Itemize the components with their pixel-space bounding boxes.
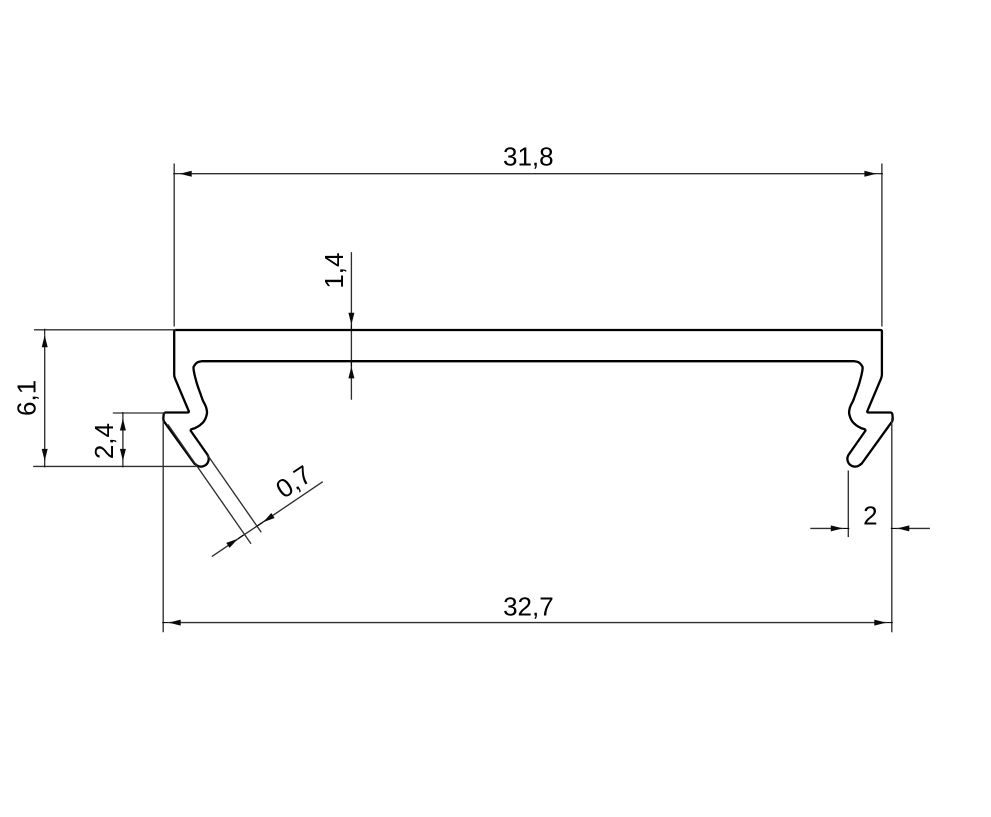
dim 6,1 extension line top: [34, 329, 176, 331]
svg-text:2: 2: [863, 501, 877, 531]
dim 32,7 extension line left: [162, 421, 164, 632]
dim 2 dimension line: [810, 525, 930, 531]
dim 2,4 extension line top: [113, 412, 166, 414]
dim 6,1 dimension line: [42, 329, 48, 468]
dim 2 text: [863, 501, 877, 531]
dim 2,4 text: [89, 423, 119, 459]
dim 0,7 extension line inner: [208, 455, 262, 532]
dim 31,8 extension line right: [881, 164, 883, 327]
dim 2 extension line right shared with 32,7: [891, 418, 893, 632]
dim 2 extension line left: [847, 471, 849, 538]
dim 32,7 text: [503, 591, 554, 621]
profile cross-section outline: [163, 330, 892, 467]
dim 0,7 extension line outer: [168, 425, 251, 544]
dim 1,4 dimension line: [348, 252, 354, 400]
dim 1,4 text: [319, 253, 349, 289]
dim 2,4 dimension line: [120, 412, 126, 467]
dim 6,1 text: [12, 380, 42, 416]
dim 32,7 dimension line: [162, 620, 893, 626]
svg-text:31,8: 31,8: [503, 142, 554, 172]
svg-text:1,4: 1,4: [319, 253, 349, 289]
svg-text:6,1: 6,1: [12, 380, 42, 416]
dim 6,1 / 2,4 extension line bottom: [33, 465, 196, 467]
svg-text:2,4: 2,4: [89, 423, 119, 459]
dim 0,7 text: [270, 459, 317, 504]
dim 0,7 dimension line: [212, 482, 323, 557]
dim 31,8 extension line left: [173, 164, 175, 327]
svg-text:32,7: 32,7: [503, 591, 554, 621]
dim 31,8 text: [503, 142, 554, 172]
dim 31,8 dimension line: [173, 171, 883, 177]
